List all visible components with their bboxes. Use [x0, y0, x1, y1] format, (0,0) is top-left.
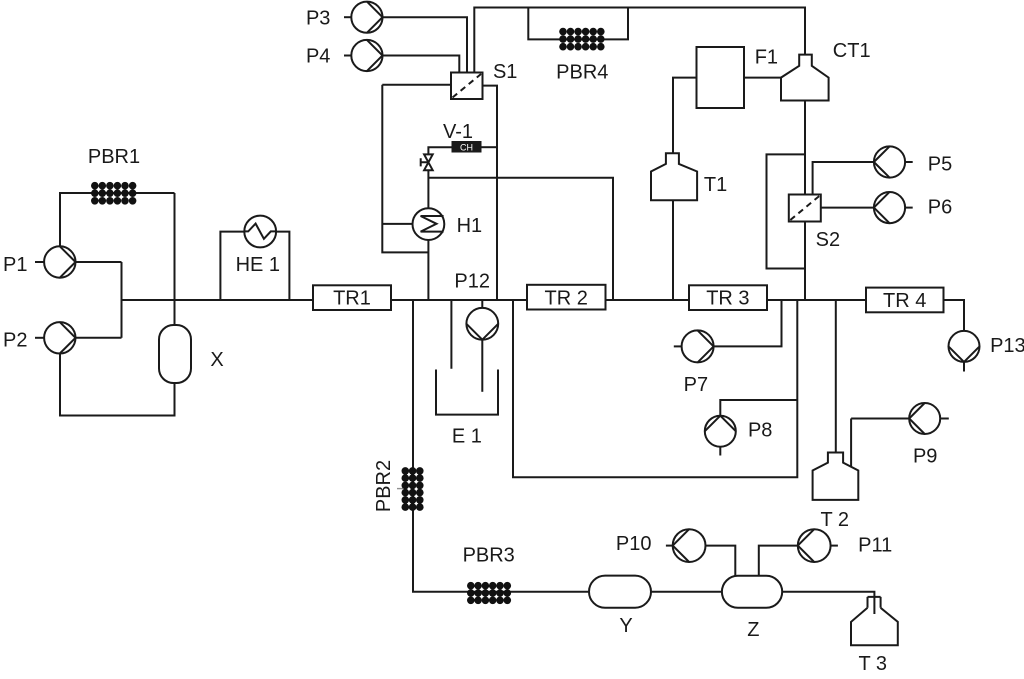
svg-text:P6: P6: [928, 196, 952, 218]
svg-text:T 2: T 2: [821, 509, 850, 531]
svg-text:P12: P12: [454, 270, 490, 292]
svg-text:TR 2: TR 2: [545, 288, 588, 310]
svg-text:PBR3: PBR3: [463, 544, 515, 566]
svg-text:X: X: [210, 349, 223, 371]
svg-text:CT1: CT1: [833, 40, 871, 62]
svg-text:P1: P1: [3, 254, 27, 276]
svg-text:PBR4: PBR4: [556, 61, 608, 83]
svg-text:V-1: V-1: [443, 121, 473, 143]
svg-text:E 1: E 1: [452, 426, 482, 448]
svg-text:Y: Y: [619, 615, 632, 637]
svg-text:P4: P4: [306, 45, 330, 67]
svg-text:P13: P13: [990, 335, 1024, 357]
svg-text:T1: T1: [704, 174, 727, 196]
svg-text:CH: CH: [460, 142, 473, 152]
svg-text:P7: P7: [684, 374, 708, 396]
svg-text:HE 1: HE 1: [236, 254, 280, 276]
svg-text:TR1: TR1: [333, 288, 371, 310]
svg-text:S2: S2: [816, 229, 840, 251]
svg-text:P9: P9: [913, 446, 937, 468]
svg-text:P2: P2: [3, 330, 27, 352]
svg-text:S1: S1: [493, 61, 517, 83]
svg-text:P11: P11: [858, 534, 892, 556]
svg-text:TR 3: TR 3: [706, 288, 749, 310]
svg-text:PBR1: PBR1: [88, 146, 140, 168]
svg-text:Z: Z: [747, 619, 759, 641]
svg-text:PBR2: PBR2: [373, 460, 395, 512]
svg-text:T 3: T 3: [859, 653, 888, 675]
svg-text:TR 4: TR 4: [883, 290, 926, 312]
svg-text:P5: P5: [928, 153, 952, 175]
svg-text:F1: F1: [755, 47, 778, 69]
svg-text:H1: H1: [457, 215, 483, 237]
svg-text:P3: P3: [306, 7, 330, 29]
svg-text:P10: P10: [616, 533, 652, 555]
svg-text:P8: P8: [748, 420, 772, 442]
